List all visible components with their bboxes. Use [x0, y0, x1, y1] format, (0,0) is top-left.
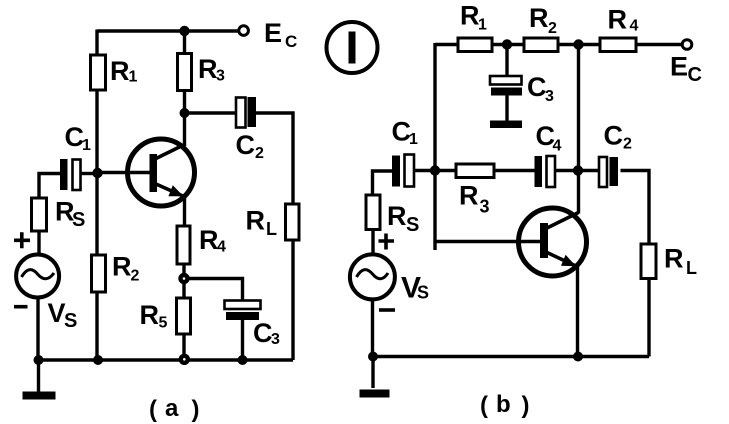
- svg-text:R: R: [387, 201, 407, 231]
- svg-text:2: 2: [255, 145, 264, 162]
- svg-text:R: R: [459, 181, 479, 211]
- svg-text:C: C: [253, 318, 273, 348]
- svg-text:R: R: [608, 5, 628, 35]
- svg-text:L: L: [266, 219, 277, 239]
- svg-text:L: L: [686, 258, 697, 278]
- svg-text:): ): [192, 396, 200, 423]
- svg-text:C: C: [236, 130, 256, 160]
- svg-text:2: 2: [131, 268, 140, 285]
- svg-text:S: S: [417, 283, 429, 303]
- svg-text:1: 1: [478, 17, 487, 34]
- svg-text:3: 3: [545, 88, 554, 105]
- svg-text:R: R: [460, 1, 480, 31]
- svg-text:C: C: [688, 64, 702, 86]
- svg-text:2: 2: [623, 136, 632, 153]
- svg-text:E: E: [670, 52, 688, 82]
- svg-text:R: R: [529, 3, 549, 33]
- svg-text:5: 5: [159, 315, 168, 332]
- svg-text:1: 1: [82, 137, 91, 154]
- svg-text:a: a: [165, 395, 179, 422]
- svg-text:R: R: [664, 244, 684, 274]
- svg-text:(: (: [149, 396, 157, 423]
- svg-text:3: 3: [216, 68, 225, 85]
- svg-text:b: b: [496, 391, 511, 418]
- svg-text:R: R: [198, 54, 218, 84]
- svg-text:R: R: [140, 300, 160, 330]
- svg-text:2: 2: [548, 20, 557, 37]
- svg-text:R: R: [110, 56, 130, 86]
- svg-text:1: 1: [129, 69, 138, 86]
- svg-text:4: 4: [553, 138, 562, 155]
- svg-text:C: C: [604, 121, 624, 151]
- svg-text:3: 3: [480, 197, 490, 217]
- svg-text:S: S: [72, 209, 85, 231]
- svg-text:3: 3: [271, 331, 280, 348]
- svg-text:V: V: [48, 298, 66, 328]
- svg-text:R: R: [199, 225, 219, 255]
- svg-text:4: 4: [217, 239, 226, 256]
- svg-text:4: 4: [630, 18, 639, 35]
- svg-text:S: S: [64, 310, 77, 332]
- svg-text:R: R: [112, 252, 132, 282]
- svg-text:C: C: [527, 72, 547, 102]
- svg-text:): ): [522, 392, 530, 419]
- svg-text:E: E: [264, 18, 282, 48]
- svg-text:S: S: [406, 214, 419, 236]
- svg-text:C: C: [285, 32, 297, 51]
- svg-text:(: (: [480, 392, 488, 419]
- svg-text:1: 1: [409, 131, 418, 148]
- svg-text:R: R: [246, 206, 266, 236]
